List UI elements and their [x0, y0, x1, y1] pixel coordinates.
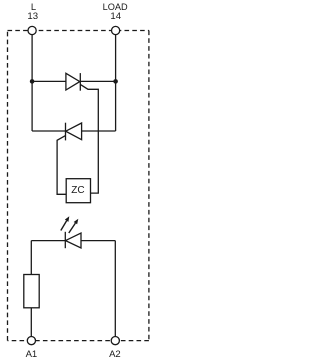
node: junction right of SCR1 — [113, 79, 118, 84]
wire: left vertical from terminal 13 down to SCR2 row — [31, 34, 33, 131]
wire: right input column down to A2 — [114, 241, 116, 337]
svg-text:A2: A2 — [109, 349, 121, 360]
resistor R1 — [24, 275, 39, 308]
node: junction left of SCR1 — [30, 79, 35, 84]
wire: SCR2 row left side — [32, 130, 65, 132]
wire: left input column above resistor — [30, 241, 32, 275]
svg-text:14: 14 — [110, 11, 121, 22]
LED arrow 1 — [61, 221, 67, 231]
svg-text:L: L — [31, 1, 36, 12]
zero-cross block ZC — [66, 179, 90, 203]
terminal A1 — [27, 337, 35, 345]
wire: SCR1 gate lead down to ZC block — [80, 84, 98, 193]
dashed enclosure border — [8, 31, 149, 341]
terminal A2 — [111, 337, 119, 345]
terminal 14 (LOAD) — [112, 26, 120, 34]
wire: left input column below resistor — [30, 308, 32, 337]
wire: SCR2 gate lead down to ZC block — [57, 136, 66, 195]
thyristor Q1 (upper SCR, pointing right) — [66, 73, 80, 90]
svg-text:13: 13 — [27, 11, 38, 22]
svg-text:A1: A1 — [26, 349, 38, 360]
thyristor Q2 (lower SCR, pointing left) — [65, 123, 67, 141]
LED arrow 2 — [69, 223, 76, 233]
wire: right vertical from terminal 14 down to SCR2 row — [115, 34, 117, 131]
wire: SCR2 row right side — [82, 130, 116, 132]
wire: SCR1 row anode side — [32, 80, 66, 82]
LED D1 input indicator — [31, 240, 65, 242]
wire: SCR1 row cathode side — [80, 80, 115, 82]
terminal 13 (L) — [28, 26, 36, 34]
svg-text:ZC: ZC — [71, 185, 84, 196]
